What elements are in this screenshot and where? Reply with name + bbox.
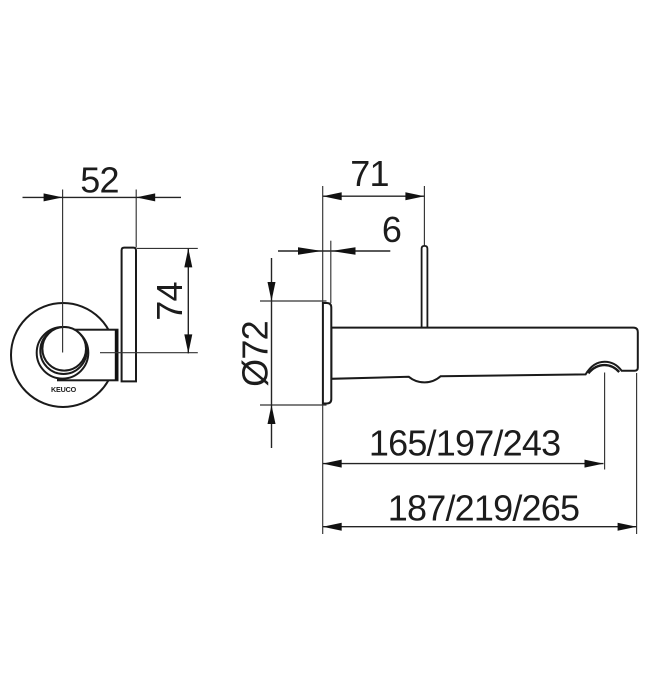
- svg-text:187/219/265: 187/219/265: [388, 487, 579, 528]
- svg-text:Ø72: Ø72: [234, 321, 275, 387]
- svg-text:6: 6: [382, 209, 401, 250]
- svg-text:74: 74: [149, 282, 190, 320]
- svg-text:165/197/243: 165/197/243: [369, 423, 560, 464]
- svg-text:KEUCO: KEUCO: [51, 385, 77, 394]
- svg-text:52: 52: [80, 159, 118, 200]
- svg-text:71: 71: [350, 153, 388, 194]
